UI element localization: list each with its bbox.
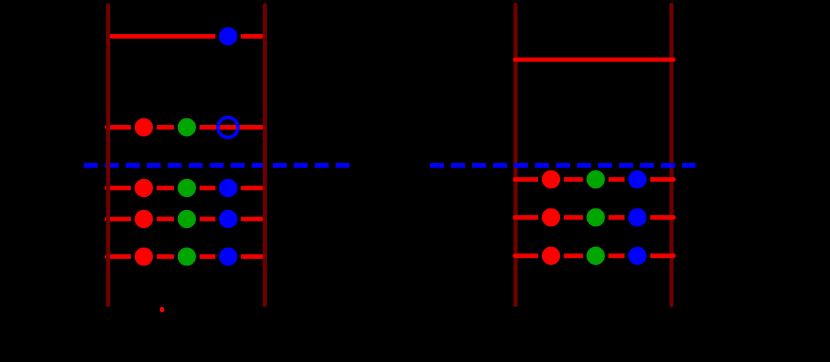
- green electron row 2: [176, 116, 198, 138]
- Fermi level dashed line (right): [430, 163, 696, 168]
- Fermi level dashed line (left): [84, 163, 350, 168]
- red electron row 5: [133, 246, 155, 268]
- left potential wall: [513, 5, 517, 305]
- red electron row C: [540, 245, 562, 267]
- green electron row 4: [176, 208, 198, 230]
- blue electron row C: [626, 245, 648, 267]
- row B line: [515, 215, 674, 220]
- blue electron row A: [626, 168, 648, 190]
- green electron row A: [585, 168, 607, 190]
- red electron row 4: [133, 208, 155, 230]
- green electron row C: [585, 245, 607, 267]
- red electron row 3: [133, 177, 155, 199]
- stray small red dot: [160, 307, 164, 313]
- green electron row B: [585, 206, 607, 228]
- blue electron on top level: [217, 25, 239, 47]
- right potential wall: [263, 5, 267, 305]
- level row 5 line: [107, 254, 264, 259]
- right potential wall: [669, 5, 673, 305]
- row A line: [515, 177, 674, 182]
- blue electron row 5: [217, 246, 239, 268]
- LEFT PANEL: [84, 5, 350, 312]
- top level line: [515, 57, 674, 61]
- green electron row 5: [176, 246, 198, 268]
- row C line: [515, 254, 674, 259]
- blue electron row 4: [217, 208, 239, 230]
- green electron row 3: [176, 177, 198, 199]
- blue electron row B: [626, 206, 648, 228]
- level row 2 line: [107, 125, 264, 130]
- top energy level line: [110, 34, 263, 39]
- left potential wall: [106, 5, 110, 305]
- level row 3 line: [107, 186, 264, 191]
- RIGHT PANEL: [430, 5, 696, 305]
- red electron row 2: [133, 116, 155, 138]
- blue electron row 3: [217, 177, 239, 199]
- open circle (hole) row 2: [218, 117, 238, 137]
- red electron row B: [540, 206, 562, 228]
- red electron row A: [540, 168, 562, 190]
- level row 4 line: [107, 217, 264, 222]
